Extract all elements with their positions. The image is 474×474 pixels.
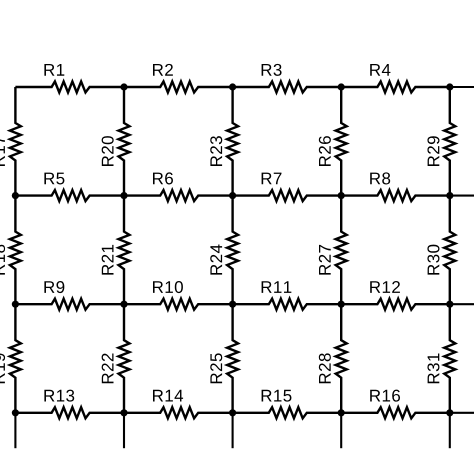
junction dot col 1 row 2 [12, 192, 19, 199]
wire bottom stub column 3 [232, 413, 234, 448]
label R10 [153, 281, 183, 293]
junction dot col 2 row 1 [120, 83, 127, 90]
wire bottom stub column 4 [340, 413, 342, 448]
label R2 [153, 64, 173, 76]
resistor R13 [15, 407, 124, 418]
junction dot col 2 row 2 [120, 192, 127, 199]
resistor R20 [119, 87, 130, 196]
label R4 [370, 64, 390, 76]
wire bottom stub column 5 [449, 413, 451, 448]
label R7 [262, 173, 282, 185]
resistor R6 [124, 190, 233, 201]
resistor R14 [124, 407, 233, 418]
resistor R12 [341, 299, 450, 310]
resistor R8 [341, 190, 450, 201]
resistor R29 [444, 87, 455, 196]
junction dot col 4 row 3 [338, 301, 345, 308]
junction dot col 5 row 2 [446, 192, 453, 199]
junction dot col 3 row 4 [229, 409, 236, 416]
label R12 [370, 281, 400, 293]
wire bottom stub column 1 [14, 413, 16, 448]
label R13 [44, 390, 74, 402]
label R5 [44, 173, 64, 185]
resistor R23 [227, 87, 238, 196]
label R25 [210, 353, 222, 383]
resistor R30 [444, 196, 455, 305]
wire right stub row 3 [450, 303, 474, 305]
wire right stub row 1 [450, 86, 474, 88]
label R29 [427, 136, 439, 166]
label R15 [262, 390, 292, 402]
resistor R27 [336, 196, 347, 305]
junction dot col 4 row 4 [338, 409, 345, 416]
label R30 [427, 245, 439, 275]
junction dot col 4 row 2 [338, 192, 345, 199]
resistor R18 [10, 196, 21, 305]
label R23 [210, 136, 222, 166]
resistor R24 [227, 196, 238, 305]
resistor R17 [10, 87, 21, 196]
wire right stub row 2 [450, 195, 474, 197]
label R8 [370, 172, 390, 184]
junction dot col 5 row 4 [446, 409, 453, 416]
label R26 [319, 136, 331, 166]
junction dot col 4 row 1 [338, 83, 345, 90]
label R19 [0, 353, 5, 383]
resistor R2 [124, 82, 233, 93]
junction dot col 5 row 3 [446, 301, 453, 308]
label R21 [102, 245, 114, 275]
resistor R16 [341, 407, 450, 418]
label R28 [319, 353, 331, 383]
junction dot col 3 row 3 [229, 301, 236, 308]
resistor R4 [341, 82, 450, 93]
label R14 [153, 390, 183, 402]
label R9 [44, 281, 64, 293]
label R6 [153, 172, 173, 184]
label R27 [319, 245, 331, 275]
resistor R11 [233, 299, 342, 310]
junction dot col 2 row 4 [120, 409, 127, 416]
resistor R31 [444, 304, 455, 413]
junction dot col 5 row 1 [446, 83, 453, 90]
resistor R7 [233, 190, 342, 201]
label R22 [102, 353, 114, 383]
junction dot col 3 row 1 [229, 83, 236, 90]
label R31 [427, 353, 439, 383]
resistor R22 [119, 304, 130, 413]
label R16 [370, 390, 400, 402]
resistor R25 [227, 304, 238, 413]
resistor R5 [15, 190, 124, 201]
junction dot col 1 row 3 [12, 301, 19, 308]
resistor R26 [336, 87, 347, 196]
junction dot col 2 row 3 [120, 301, 127, 308]
label R24 [210, 245, 222, 275]
wire bottom stub column 2 [123, 413, 125, 448]
resistor R15 [233, 407, 342, 418]
resistor R9 [15, 299, 124, 310]
resistor R19 [10, 304, 21, 413]
resistor R10 [124, 299, 233, 310]
resistor R1 [15, 82, 124, 93]
label R17 [0, 136, 5, 166]
label R20 [102, 136, 114, 166]
label R11 [262, 281, 292, 293]
resistor R21 [119, 196, 130, 305]
resistor R28 [336, 304, 347, 413]
label R3 [262, 64, 282, 76]
junction dot col 3 row 2 [229, 192, 236, 199]
junction dot col 1 row 4 [12, 409, 19, 416]
wire right stub row 4 [450, 412, 474, 414]
label R18 [0, 245, 5, 275]
label R1 [44, 64, 64, 76]
resistor R3 [233, 82, 342, 93]
